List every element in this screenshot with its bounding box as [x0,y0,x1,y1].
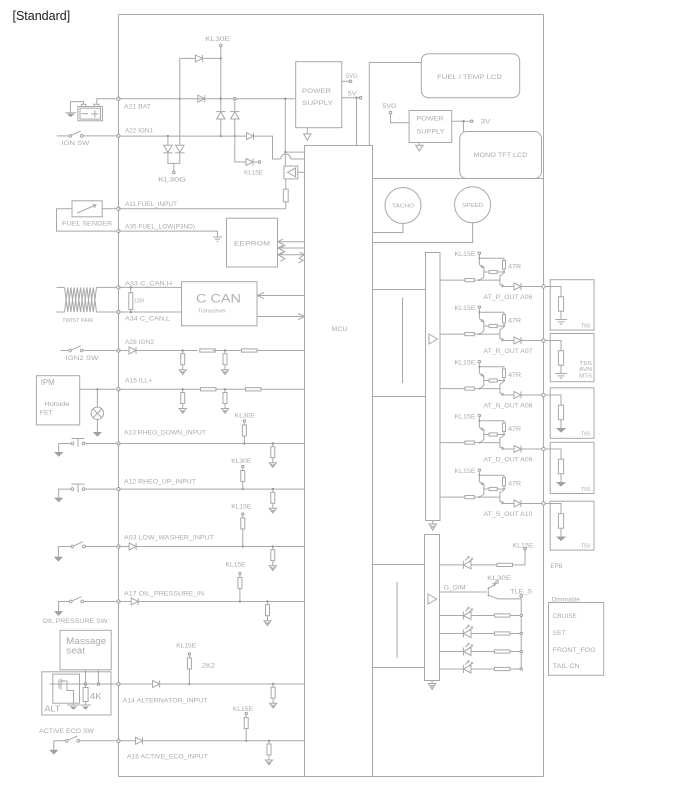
wire IGN SW stub [57,135,69,137]
wire 5VG to small PS [391,114,410,123]
wire ECO SW to pin [80,740,117,742]
wire IPM to A15 pin [80,388,117,390]
wire A16 row seg2 [143,740,305,742]
junction KL30G left [167,135,169,137]
svg-text:KL15E: KL15E [233,706,253,713]
wire subsection2 top (MCU-U8) [373,564,425,566]
svg-text:A15 ILL+: A15 ILL+ [125,378,152,385]
terminal massage 1 on A14 [84,683,87,686]
pull-up KL30E A12 (terminal+resistor) [241,465,245,481]
svg-text:KL30E: KL30E [205,36,230,43]
svg-text:T6S: T6S [579,361,593,367]
wire to FUEL/TEMP LCD [369,62,421,64]
wire A28 row seg3 [213,350,242,352]
wire hop over x285 line [281,154,291,159]
wire term resistor top lead [130,287,132,292]
wire D4 to IGN1 [234,119,236,136]
wire pin into box at y=340 [545,341,561,351]
pulldown IGN2 r2 (resistor+gnd) [221,351,228,375]
resistor R3 (IGN2 series 1) [200,349,216,352]
wire EEPROM-MCU bus 2 [278,247,305,249]
wire U8 ground stem [431,680,433,683]
wire pull-up to A12 row [242,482,244,490]
arrowhead left EEPROM line 2 [278,245,283,250]
svg-text:AVN: AVN [579,367,592,373]
svg-text:KL15E: KL15E [244,170,263,177]
output driver unit AT_P_OUT A06 (Q pair, 47R, diode) [440,252,545,290]
wire 4K resistor bottom [85,702,87,706]
svg-text:T6S: T6S [581,323,591,329]
pin A15 on bus [117,388,120,391]
svg-text:A28 IGN2: A28 IGN2 [125,339,155,346]
wire buffer down to resistor [285,179,287,189]
pin A14 on bus [117,682,120,685]
junction A14 hang res [272,683,274,685]
arrowhead left EEPROM line 1 [278,239,283,244]
wire massage lead 2 [97,670,99,684]
power supply U3 box [296,62,342,128]
svg-text:IGN2 SW: IGN2 SW [66,355,99,362]
wire A12 row [119,488,305,490]
svg-text:KL15E: KL15E [455,360,476,367]
wire 4K resistor top [85,684,87,688]
wire resistor to ground (y=279.2) [560,311,562,319]
svg-text:T5S: T5S [581,543,591,549]
wire U4 ground stem [418,143,420,146]
pin small on BAT wire [234,97,237,100]
wire subsection2 inner bus line [396,582,398,658]
terminal massage 2 on A14 [97,683,100,686]
wire A16 row seg1 [119,740,136,742]
wire twist to A34 pin [97,311,117,313]
wire twist pair bottom stub [57,311,65,313]
svg-text:KL15E: KL15E [455,414,476,421]
svg-text:AT_R_OUT A07: AT_R_OUT A07 [484,348,534,355]
wire pull-up to A03 row [242,529,244,547]
svg-text:A13 RHEO_DOWN_INPUT: A13 RHEO_DOWN_INPUT [124,430,206,437]
wire IGN1 to MCU (with hop) [254,136,281,159]
wire KL15E EPB row b [471,564,497,566]
svg-text:Hotside: Hotside [44,401,70,408]
svg-text:KL15E: KL15E [176,642,196,649]
svg-text:FRONT_FOG: FRONT_FOG [553,647,596,654]
pull-up KL15E A14 (terminal+resistor) [187,653,191,669]
wire U7 ground stem [432,521,434,525]
connector box T6S AVN MTS [550,334,594,382]
svg-text:EPB: EPB [551,563,563,570]
diode D1 (to KL30E) [195,55,202,62]
svg-text:A17 OIL_PRESSURE_IN: A17 OIL_PRESSURE_IN [124,591,205,598]
junction A33 termination [130,286,132,288]
display MONO TFT LCD box [460,132,542,179]
svg-text:47R: 47R [508,264,521,271]
wire SPEED to MCU [373,223,473,243]
LED D14 (EPB) [463,557,472,569]
ground PS (open triangle) [304,134,311,140]
wire pin into box at y=503 [545,504,561,514]
fuel sender sensor box [72,201,102,217]
svg-text:A14 ALTERNATOR_INPUT: A14 ALTERNATOR_INPUT [123,698,208,705]
wire pull-up to A16 row [245,729,247,741]
wire A14 row left [50,683,117,685]
svg-text:A12 RHEO_UP_INPUT: A12 RHEO_UP_INPUT [124,478,196,485]
wire A15 row seg2 [216,388,246,390]
buffer U2 (voltage sense) [284,166,298,179]
svg-text:EEPROM: EEPROM [234,241,270,248]
wire A13 switch ground lead [59,444,71,453]
wire battery positive to A21 pin [97,99,117,105]
wire PS 5V lead [342,97,360,99]
wire twist to A33 pin [97,286,117,288]
wire IGN1 hop to MCU [291,158,305,160]
wire R1 to A11 row [285,202,287,209]
terminal TLE_S [520,595,523,598]
wire A15 row seg3 [261,388,305,390]
wire massage lead 1 [85,670,87,684]
wire A34 row [119,311,182,313]
resistor R5 (ILL series 1) [201,388,217,391]
wire term resistor bottom lead [130,309,132,312]
switch OIL PRESSURE SW (toggle) [69,597,83,603]
pin A11 on bus [117,207,120,210]
terminal 5VG (right) [389,111,392,114]
pull-up KL30E A13 (terminal+resistor) [242,420,246,436]
wire G_DIM base [440,591,487,593]
resistor in box (y=333) [558,351,563,366]
resistor in box (y=500.7) [558,514,563,529]
wire D8 to terminal [253,161,258,163]
C CAN transceiver U6 box [182,282,258,326]
svg-text:Massage: Massage [66,636,106,646]
wire subsection bottom (MCU-U7) [373,396,426,398]
svg-text:120R: 120R [134,299,144,305]
wire A03 row seg2 [136,546,304,548]
svg-text:AT_N_OUT A08: AT_N_OUT A08 [484,402,534,409]
pulldown A16 (resistor+gnd) [265,741,272,765]
wire buffer to MCU [298,171,305,173]
svg-text:MONO TFT LCD: MONO TFT LCD [474,152,529,159]
wire fuel sender low side [57,209,117,231]
svg-text:KL15E: KL15E [231,503,251,510]
wire Q3 emitter to TLE_S node [498,597,521,599]
wire ALT fet drain down [73,698,75,706]
wire TACHO to MCU [373,224,404,233]
junction A03 hang res [272,545,274,547]
svg-text:KL15E: KL15E [226,562,246,569]
pulldown A12 (resistor+gnd) [269,489,276,513]
resistor R4 (IGN2 series 2) [242,349,258,352]
junction ILL pulldown 1 [182,388,184,390]
wire gauges section divider [373,178,544,180]
pulldown A17 (resistor+gnd) [264,602,271,626]
driver U8 box (LED outputs) [425,535,440,681]
wire CCAN to MCU upper [257,295,305,297]
ground U7 (open) [429,524,436,530]
svg-text:3V: 3V [481,119,492,126]
junction lamp tap [96,388,98,390]
junction D4 IGN1 [234,135,236,137]
junction x179 on A21 BAT wire [179,98,181,100]
wire pull-up to A14 row [188,669,190,684]
display FUEL/TEMP LCD box [421,54,519,98]
wire TLE_S vertical bus [520,599,522,669]
wire fuel sender to A11 pin [102,208,117,210]
arrowhead into MCU (CCAN tx) [298,313,305,319]
terminal 3V [470,120,473,123]
output driver unit AT_D_OUT A09 (Q pair, 47R, diode) [440,414,545,452]
diode D5 KL30G (down) [163,145,172,153]
terminal 5V [359,96,362,99]
ground A13 switch (solid) [54,452,63,457]
svg-text:C CAN: C CAN [196,294,241,306]
wire A11 row [119,208,286,210]
svg-text:AT_S_OUT A10: AT_S_OUT A10 [484,511,534,518]
wire A13 switch to pin [85,443,117,445]
svg-text:[Standard]: [Standard] [13,9,71,23]
junction A16 pull-up [245,740,247,742]
svg-text:KL30E: KL30E [231,458,251,465]
junction BAT/KL30E column [220,98,222,100]
power supply U4 box (small) [409,111,452,143]
wire KL30G left drop [167,136,169,145]
wire subsection2 bottom (MCU-U8) [373,667,425,669]
ground earth in box (y=279.2) [555,320,567,325]
svg-text:T5S: T5S [581,487,591,493]
wire A03 switch to pin [85,546,117,548]
resistor in box (y=279.2) [558,297,563,312]
driver U7 box (AT outputs) [426,253,441,521]
wire pin into box at y=286 [545,287,561,297]
pulldown A03 (resistor+gnd) [269,547,276,571]
resistor in box (y=387.3) [558,405,563,420]
wire A22 IGN1 row [119,135,247,137]
wire CCAN to MCU lower [257,316,305,318]
pin A34 on bus [117,310,120,313]
svg-text:A16 ACTIVE_ECO_INPUT: A16 ACTIVE_ECO_INPUT [127,754,208,761]
svg-text:SUPPLY: SUPPLY [417,128,446,135]
wire A17 row seg2 [138,601,304,603]
svg-text:AT_D_OUT A09: AT_D_OUT A09 [484,456,534,463]
wire connector bus left (x=118) [118,15,120,777]
wire EEPROM-MCU bus 1 [278,241,305,243]
junction A16 hang res [268,740,270,742]
wire A35 row to ground [119,231,218,237]
svg-text:FUEL SENDER: FUEL SENDER [62,221,113,228]
svg-text:IGN SW: IGN SW [61,140,89,147]
svg-text:MTS: MTS [579,373,593,379]
diode D9 (IGN2) [129,347,136,354]
pin A21 on bus [117,97,120,100]
diode D10 (A03) [129,543,136,550]
wire A28 row seg2 [136,350,198,352]
wire A17 row seg1 [119,601,132,603]
svg-text:FUEL / TEMP LCD: FUEL / TEMP LCD [437,74,503,81]
junction A03 pull-up [242,545,244,547]
switch IGN2 SW [69,346,83,352]
svg-text:TACHO: TACHO [392,204,414,210]
svg-text:KL15E: KL15E [513,542,534,549]
terminal KL15E (EPB LED) [524,548,527,551]
pin A33 on bus [117,286,120,289]
wire right bus (x=543.5) [543,15,545,777]
ALT inner box (FET) [53,674,80,703]
svg-text:POWER: POWER [417,115,445,122]
output driver unit AT_S_OUT A10 (Q pair, 47R, diode) [440,469,545,507]
svg-text:KL15E: KL15E [455,305,476,312]
ground earth in box (y=333) [555,374,567,379]
buffer triangle U8 [428,594,437,604]
junction A13 hang res [272,442,274,444]
wire IGN SW to A22 pin [83,135,117,137]
arrowhead into MCU line 3 [300,252,305,257]
svg-text:FET: FET [40,410,53,417]
junction A12 hang res [272,488,274,490]
pin A22 on bus [117,134,120,137]
svg-text:T6S: T6S [581,432,591,438]
wire KL30E terminal down [220,47,222,111]
junction 3V drop [462,120,464,122]
svg-text:POWER: POWER [302,88,332,95]
arrowhead chevron below line 3 [298,258,303,263]
wire subsection top (MCU-U7) [373,289,426,291]
battery B1 [78,104,103,121]
terminal KL30G [173,171,176,174]
wire A14 row seg2 [160,683,305,685]
wire BAT drop x284.8 [284,99,286,152]
svg-text:TAIL CN: TAIL CN [553,663,581,670]
pull-up KL15E A03 (terminal+resistor) [241,513,245,529]
wire OIL SW ground lead [59,602,70,612]
wire top border [119,14,544,16]
wire A14 row seg1 [119,683,153,685]
wire twist pair top stub [57,286,65,288]
wire diode D1 feed [180,57,196,59]
svg-text:5VG: 5VG [383,103,397,110]
pin A16 on bus [117,739,120,742]
LED row 3 (LED+resistor) [440,643,523,655]
svg-text:KL30G: KL30G [158,177,186,184]
svg-text:OIL PRESSURE SW: OIL PRESSURE SW [43,618,108,625]
arrowhead into CCAN [258,292,265,298]
wire A12 switch ground lead [59,489,71,498]
wire EPB LED to terminal [513,550,526,565]
output driver unit AT_R_OUT A07 (Q pair, 47R, diode) [440,306,545,344]
svg-text:Transceiver: Transceiver [198,309,226,315]
svg-text:KL30E: KL30E [487,575,511,582]
wire A28 row seg4 [257,350,305,352]
connector box T6S #1 [550,280,594,330]
wire A13 row [119,443,305,445]
pulldown ILL r1 (resistor+gnd) [179,389,186,413]
resistor in box (y=441.8) [558,459,563,474]
pull-up KL15E A16 (terminal+resistor) [244,712,248,728]
svg-text:seat: seat [66,646,86,656]
svg-text:A35 FUEL_LOW(P3ND): A35 FUEL_LOW(P3ND) [125,223,195,230]
wire EEPROM-MCU bus 3 [278,254,305,256]
resistor R2 120R (CAN term) [129,293,133,310]
svg-text:A22 IGN1: A22 IGN1 [125,128,153,135]
LED row 2 (LED+resistor) [440,625,523,637]
pulldown IGN2 r1 (resistor+gnd) [179,351,186,375]
diode D12 (A14) [153,681,160,688]
terminal KL30E [220,44,223,47]
pulldown A14 (resistor+gnd) [270,684,277,708]
resistor R1 (A11 pull) [283,189,288,202]
ground U4 (open triangle) [416,145,423,151]
svg-text:CRUISE: CRUISE [553,613,577,620]
ground A12 switch (solid) [54,498,63,503]
gauge SPEED [455,187,491,223]
pulldown A13 (resistor+gnd) [269,444,276,468]
wire A33 row [119,286,182,288]
wire lamp feed [96,389,98,407]
wire A12 switch to pin [85,488,117,490]
switch A03 (toggle) [71,542,85,548]
wire PS ground stem [306,128,308,134]
dimmable signals box [549,603,604,676]
lamp L1 (illumination) [91,407,103,419]
arrowhead right chevron EEPROM line 2 [280,249,285,254]
wire ECO SW ground lead [54,741,66,750]
wire A15 row seg1 [119,388,201,390]
svg-text:ALT: ALT [45,704,61,713]
pin A28 on bus [117,349,120,352]
junction sense node [284,151,286,153]
junction A17 pull-up [239,600,241,602]
wire lamp to ground [96,420,98,433]
diode D11 (A17) [131,598,138,605]
junction D3 IGN1 [220,135,222,137]
junction IGN2 pulldown 2 [224,349,226,351]
wire battery negative to ground [71,102,84,113]
wire D1 cathode to node [202,57,220,59]
ground solid in box (y=441.8) [556,482,566,487]
wire bottom border [119,776,544,778]
gauge TACHO [385,188,421,224]
pull-up KL15E A17 (terminal+resistor) [238,572,242,588]
junction ILL pulldown 2 [224,388,226,390]
terminal 5VG (PS) [349,80,352,83]
diode D8 (KL15E tap) [246,159,253,166]
svg-text:47R: 47R [508,426,521,433]
pin A17 on bus [117,600,120,603]
wire MCU to FUEL/TEMP LCD vertical [368,63,370,146]
wire KL30G join [168,153,180,164]
mcu U1 box [305,146,373,777]
svg-text:KL15E: KL15E [455,251,476,258]
svg-text:A33 C_CAN,H: A33 C_CAN,H [125,280,173,287]
switch A13 (push) [71,439,85,447]
junction A17 hang res [266,600,268,602]
svg-text:5V: 5V [348,91,358,98]
resistor R7 4K [83,688,88,702]
svg-text:AT_P_OUT A06: AT_P_OUT A06 [484,294,534,301]
ALT outer box [42,672,111,715]
wire subsection inner bus line [402,298,404,384]
LED row 1 (LED+resistor) [440,607,523,619]
wire pin into box at y=394.5 [545,395,561,405]
svg-text:SUPPLY: SUPPLY [302,100,334,107]
wire 5V to MCU top [356,98,358,146]
wire D3 to IGN1 [220,119,222,136]
switch IGN SW [69,131,83,137]
transistor Q3 (G_DIM driver) [488,583,498,599]
LED row 4 (LED+resistor) [440,661,523,673]
wire D4 top [234,99,236,111]
connector box T6S #3 [550,388,594,439]
ground solid in box (y=500.7) [556,537,566,542]
svg-text:A03 LOW_WASHER_INPUT: A03 LOW_WASHER_INPUT [124,534,214,541]
